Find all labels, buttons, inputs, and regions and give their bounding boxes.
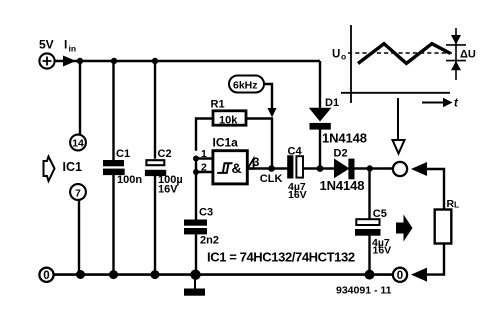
svg-text:14: 14: [72, 138, 84, 150]
wire R1 right: [246, 119, 272, 169]
label Iin: [64, 38, 76, 54]
node bot-E: [365, 270, 375, 280]
svg-text:6kHz: 6kHz: [233, 80, 258, 92]
svg-text:CLK: CLK: [260, 173, 283, 185]
dim tick bottom: [446, 60, 466, 62]
node pin2: [193, 169, 199, 175]
diode D2: [334, 159, 355, 180]
output block arrow: [396, 215, 413, 242]
waveform y-axis: [350, 25, 352, 103]
svg-text:U: U: [332, 49, 340, 61]
wire C3 lower: [195, 234, 197, 274]
node CLK: [268, 165, 275, 172]
svg-text:&: &: [232, 160, 242, 176]
svg-text:C2: C2: [158, 148, 172, 160]
svg-text:o: o: [341, 52, 346, 62]
label RL: [447, 198, 460, 210]
capacitor C3: [184, 220, 207, 235]
waveform label Uo: [332, 49, 346, 62]
svg-text:1N4148: 1N4148: [320, 178, 365, 193]
op-amp U1 gate IC1a box: [213, 151, 247, 184]
svg-text:3: 3: [253, 155, 260, 169]
svg-text:R1: R1: [211, 99, 225, 111]
dim tick top: [446, 44, 466, 46]
svg-text:10k: 10k: [219, 115, 238, 127]
pin wire 1: [196, 157, 213, 159]
svg-text:IC1 = 74HC132/74HCT132: IC1 = 74HC132/74HCT132: [207, 250, 355, 265]
input arrow symbol: [44, 157, 55, 182]
svg-text:I: I: [64, 38, 67, 52]
pin wire 2: [196, 171, 213, 173]
svg-text:L: L: [454, 200, 459, 210]
wire D1 top: [319, 61, 321, 108]
current arrowhead: [63, 56, 76, 67]
svg-text:0: 0: [397, 270, 403, 282]
node output: [367, 165, 373, 171]
wire top rail: [55, 60, 320, 62]
wire bottom rail: [54, 273, 393, 276]
svg-text:1: 1: [201, 148, 207, 160]
svg-text:C4: C4: [288, 146, 303, 158]
probe arrowhead open: [393, 140, 405, 154]
svg-text:934091 - 11: 934091 - 11: [336, 285, 392, 297]
pin 14: [70, 135, 86, 151]
waveform dashed mean: [348, 52, 452, 54]
output polarity wedge pin 3: [248, 159, 254, 169]
terminal 0 left: [39, 268, 53, 282]
wire C4 to D2: [304, 167, 335, 169]
svg-text:C5: C5: [373, 208, 387, 220]
diode D1: [309, 108, 332, 130]
supply terminal 5V: [39, 53, 54, 68]
svg-text:C3: C3: [199, 207, 213, 219]
node bot-D ground node: [190, 270, 200, 280]
dim arrow up: [451, 61, 461, 70]
wire C5 column: [368, 169, 370, 275]
svg-text:IC1: IC1: [63, 160, 83, 174]
capacitor C4: [287, 155, 303, 178]
wire 6kHz: [264, 84, 272, 110]
svg-text:2: 2: [201, 162, 207, 174]
node bot-B: [109, 270, 118, 279]
resistor RL: [435, 210, 452, 244]
wire D2 to output: [355, 167, 393, 169]
dim arrow down: [451, 35, 461, 45]
capacitor C1: [103, 160, 125, 175]
node top-C: [152, 58, 158, 64]
wire D1 bottom: [319, 129, 321, 168]
svg-text:1N4148: 1N4148: [322, 131, 367, 146]
svg-text:5V: 5V: [39, 38, 54, 52]
dim line dU vertical: [455, 28, 457, 80]
svg-text:16V: 16V: [288, 189, 307, 201]
capacitor C5: [356, 219, 379, 225]
arrowhead to RL top: [411, 162, 427, 176]
waveform x-axis: [341, 92, 450, 94]
svg-text:C1: C1: [116, 148, 130, 160]
wire RL top: [426, 169, 444, 209]
resistor R1: [213, 111, 246, 125]
ground: [184, 279, 205, 296]
node top-B: [111, 58, 117, 64]
wire IC1 supply column lower: [78, 200, 80, 275]
schmitt hysteresis glyph: [217, 163, 232, 173]
wire R1 left: [196, 119, 213, 151]
wire IC1 supply column upper: [79, 61, 81, 135]
wire probe drop: [397, 98, 399, 139]
terminal output circle: [393, 162, 407, 176]
wire input column: [195, 159, 197, 220]
wire C1 column: [112, 61, 114, 275]
arrowhead to 0 right: [411, 268, 427, 282]
svg-text:D2: D2: [334, 148, 348, 160]
time axis arrow: [422, 102, 443, 104]
node bot-C: [151, 270, 160, 279]
terminal 0 right: [393, 268, 407, 282]
svg-text:ΔU: ΔU: [460, 49, 476, 61]
arrowhead 6kHz: [268, 108, 277, 118]
wire C2 column: [154, 61, 156, 275]
wire gate output: [247, 167, 287, 169]
svg-text:0: 0: [43, 270, 49, 282]
svg-text:16V: 16V: [373, 245, 392, 257]
node bot-A: [76, 270, 85, 279]
wire RL bottom: [426, 244, 444, 275]
node pin1: [193, 156, 199, 162]
svg-text:D1: D1: [325, 97, 339, 109]
svg-text:in: in: [69, 44, 77, 54]
node D1-D2: [317, 165, 324, 172]
svg-text:2n2: 2n2: [200, 234, 219, 246]
node top-A: [77, 58, 83, 64]
svg-text:100n: 100n: [117, 174, 142, 186]
frequency bubble 6kHz: [229, 76, 264, 93]
svg-text:7: 7: [75, 187, 81, 199]
svg-text:16V: 16V: [158, 183, 178, 195]
svg-text:IC1a: IC1a: [213, 136, 239, 150]
pin 7: [70, 184, 86, 200]
waveform triangle wave: [358, 44, 451, 64]
capacitor C2: [146, 160, 164, 165]
